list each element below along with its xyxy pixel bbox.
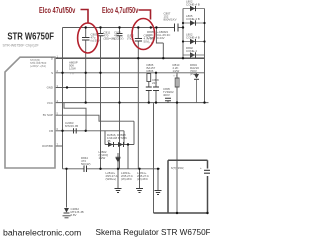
svg-text:CONE-4 B: CONE-4 B	[186, 17, 200, 21]
wire vertical left	[62, 28, 64, 169]
pin numbers	[57, 55, 59, 147]
svg-text:(P2J): (P2J)	[190, 72, 197, 76]
diode symbol 1	[190, 6, 195, 11]
wire vertical c844stub	[127, 145, 129, 169]
resistor R806	[147, 74, 151, 82]
svg-text:STR W6750F: STR W6750F	[7, 31, 54, 42]
svg-text:(2D)(Y): (2D)(Y)	[114, 37, 124, 41]
svg-text:222: 222	[152, 81, 157, 85]
svg-text:(W)-M/C: (W)-M/C	[137, 177, 148, 181]
diode L802 row3	[183, 41, 205, 43]
junction (62.5,130.8)	[61, 130, 63, 132]
junction (204.5,102.6)	[203, 101, 205, 103]
capacitor C812 plates	[117, 34, 123, 36]
wire vertical gnd3	[157, 169, 159, 190]
diode ladder rows	[183, 9, 205, 42]
junction (119.5,27.5)	[118, 26, 120, 28]
capacitor C807 plates on bus	[175, 24, 179, 32]
wire vertical r806 chain	[148, 73, 150, 103]
wire row5 jog	[54, 115, 134, 121]
ground 3	[155, 191, 162, 195]
wire vertical c806 chain	[155, 73, 157, 103]
svg-text:MT2J6 JB: MT2J6 JB	[65, 124, 78, 128]
zener D2842	[64, 208, 70, 214]
junction (207.5,213)	[206, 212, 208, 214]
svg-text:CONE-4 B: CONE-4 B	[186, 36, 200, 40]
tiny component texts	[65, 0, 202, 217]
svg-text:400V: 400V	[163, 93, 170, 97]
svg-text:JB: JB	[107, 139, 110, 143]
junction (156,72.8)	[155, 72, 157, 74]
junction (148.8,102.6)	[148, 101, 150, 103]
svg-text:1/2W: 1/2W	[69, 67, 76, 71]
IC U801 STR-W6750F outline	[5, 57, 55, 168]
wire drain row	[54, 57, 205, 59]
diode symbol 3	[190, 39, 195, 44]
junction (158,168.8)	[157, 168, 159, 170]
svg-text:5V SUP: 5V SUP	[43, 113, 53, 117]
red ellipse 1	[78, 23, 98, 53]
capacitor C844 plates on OCP row	[84, 166, 87, 173]
capacitor C810 elco plates	[135, 39, 142, 42]
junction (204.5,41.5)	[203, 40, 205, 42]
wire vertical fb drop	[123, 131, 125, 145]
junction (138.3,27.5)	[137, 26, 139, 28]
junction (177,213)	[176, 212, 178, 214]
wire FB row	[54, 130, 124, 132]
wire vertical c811	[100, 28, 102, 169]
wire vertical r810 chain	[176, 73, 178, 213]
junction (183,23)	[182, 22, 184, 24]
svg-text:Elco 4,7uf/50v: Elco 4,7uf/50v	[102, 7, 138, 15]
capacitor C806 plates	[146, 87, 152, 91]
svg-text:+: +	[200, 166, 202, 170]
diode D804	[194, 74, 199, 80]
svg-text:VCC: VCC	[47, 101, 53, 105]
junction (138.3,58.2)	[137, 57, 139, 59]
wire vertical ladder left	[182, 9, 184, 59]
junction (85.7,130.8)	[85, 130, 87, 132]
annotation pointer 1	[81, 10, 89, 23]
resistor R810	[175, 78, 179, 87]
svg-text:6.8V: 6.8V	[71, 213, 77, 217]
wire OCP row	[63, 168, 161, 170]
wire row2	[54, 72, 205, 74]
resistor R805 arrows	[148, 41, 153, 45]
junction (183,41.5)	[182, 40, 184, 42]
diode D2818	[118, 142, 124, 147]
wire vertical c808	[162, 43, 164, 58]
svg-text:CONE-4: CONE-4	[186, 49, 197, 53]
capacitor C811 plates	[98, 34, 104, 36]
junction (177,102.6)	[176, 101, 178, 103]
wire vertical c809	[85, 28, 87, 103]
diode D2813	[116, 157, 121, 163]
bottom right box	[154, 160, 208, 213]
junction (100.5,27.5)	[99, 26, 101, 28]
wire row3	[54, 87, 138, 89]
svg-text:CONE-4 B: CONE-4 B	[186, 3, 200, 7]
wire vertical gnd1	[117, 153, 119, 188]
svg-text:↑↑↑: ↑↑↑	[173, 74, 178, 78]
svg-text:baharelectronic.com: baharelectronic.com	[3, 227, 81, 237]
svg-text:GND: GND	[47, 86, 53, 90]
svg-text:1/2W: 1/2W	[99, 156, 106, 160]
wire vertical zener drop	[66, 169, 68, 208]
svg-text:Skema Regulator STR W6750F: Skema Regulator STR W6750F	[96, 228, 211, 237]
wire OCP stub	[54, 145, 63, 147]
junction (128,144.5)	[127, 143, 129, 145]
capacitor in box plates	[204, 170, 211, 173]
junction (150.8,27.5)	[150, 26, 152, 28]
junction (183,27.5)	[182, 26, 184, 28]
junction (67,87.5)	[66, 86, 68, 88]
svg-text:OCP/BD: OCP/BD	[42, 144, 53, 148]
wire B+ bus	[63, 27, 184, 29]
junction (156,102.6)	[155, 101, 157, 103]
wire vertical ladder right	[204, 9, 206, 103]
ground 2	[136, 189, 143, 193]
junction (163.3,58.2)	[162, 57, 164, 59]
svg-text:800V/1KV: 800V/1KV	[164, 18, 177, 22]
capacitor C2063 on FB row	[74, 128, 77, 133]
resistor R809 arrows	[70, 72, 75, 76]
svg-text:(+6D)V +(S1): (+6D)V +(S1)	[30, 64, 46, 68]
annotation pointer 2	[139, 10, 151, 20]
diode L805 row2	[183, 22, 205, 24]
svg-text:1/2W: 1/2W	[147, 36, 154, 40]
junction (100.5,168.8)	[99, 168, 101, 170]
junction (85.7,27.5)	[85, 26, 87, 28]
ground 1	[115, 189, 122, 193]
junction (62.5,72.8)	[61, 72, 63, 74]
svg-text:STR-W6750F Ch(n)2F: STR-W6750F Ch(n)2F	[3, 44, 40, 48]
junction (183,58.2)	[182, 57, 184, 59]
svg-text:Elco 47uf/50v: Elco 47uf/50v	[39, 7, 75, 15]
wire vertical d2816 col	[104, 131, 106, 145]
capacitor C805 plates	[165, 98, 171, 102]
junction (85.7,72.8)	[85, 72, 87, 74]
junction (85.7,102.6)	[85, 101, 87, 103]
svg-text:(W/Dev): (W/Dev)	[106, 177, 117, 181]
pin names	[42, 56, 53, 148]
diode L802 row1	[183, 8, 205, 10]
wire vertical c812	[119, 28, 121, 169]
svg-text:D: D	[51, 56, 53, 60]
junction (118,168.8)	[117, 168, 119, 170]
svg-text:R806: R806	[147, 69, 154, 73]
diode D2816	[108, 142, 114, 147]
svg-text:0.44V: 0.44V	[157, 36, 165, 40]
wire vertical opto	[133, 121, 135, 144]
junction (156.4,27.5)	[155, 26, 157, 28]
junction (139.5,168.8)	[138, 168, 140, 170]
svg-text:S: S	[51, 71, 53, 75]
wire fb jog	[64, 103, 86, 131]
red ellipse 2	[132, 19, 155, 50]
junction (119.5,102.6)	[118, 101, 120, 103]
wire vertical gnd2	[139, 169, 141, 188]
svg-text:↑↑↑: ↑↑↑	[70, 72, 75, 76]
svg-text:1/2W: 1/2W	[173, 69, 180, 73]
wire vertical c810	[137, 28, 139, 169]
diode symbol 4 on drain row	[190, 52, 195, 57]
diode symbol 2	[190, 20, 195, 25]
junction (66.5,168.8)	[65, 168, 67, 170]
svg-text:(W)-M/C: (W)-M/C	[121, 177, 132, 181]
IC inner label	[30, 58, 47, 68]
wire VCC row	[54, 102, 209, 104]
junction (100.5,72.8)	[99, 72, 101, 74]
wire vertical r805	[156, 28, 163, 44]
wire diode row	[105, 144, 134, 146]
svg-text:FB: FB	[49, 129, 53, 133]
svg-text:50(1W): 50(1W)	[81, 162, 91, 166]
junction (204.5,23)	[203, 22, 205, 24]
capacitor C8xx plates	[153, 87, 159, 91]
svg-text:6(?)7150(: 6(?)7150(	[171, 166, 184, 170]
capacitor C809 elco plates	[82, 38, 90, 41]
svg-text:50V: 50V	[144, 40, 149, 44]
wire vertical left box drop	[153, 103, 155, 213]
